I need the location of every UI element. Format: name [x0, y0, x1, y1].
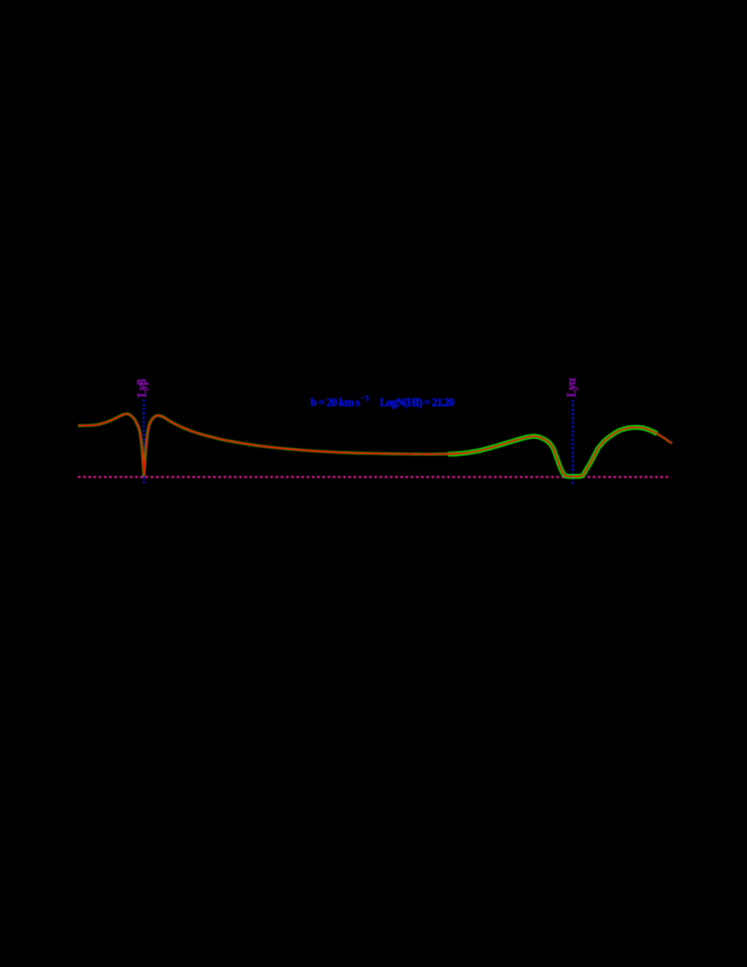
- svg-text:Lyα: Lyα: [564, 378, 578, 397]
- Ly-alpha blue dotted marker line: [572, 400, 574, 485]
- fitted red curve (right): [448, 427, 672, 476]
- svg-text:Lyβ: Lyβ: [135, 378, 149, 397]
- model spectrum green curve (tail): [653, 432, 672, 444]
- fitted red curve (left): [78, 414, 458, 476]
- model spectrum green curve (left): [78, 414, 458, 476]
- svg-text:−1: −1: [361, 394, 370, 403]
- zero-flux pink dotted line: [78, 476, 671, 478]
- svg-text:LogN(HI) = 21.20: LogN(HI) = 21.20: [380, 397, 455, 409]
- Ly-beta blue dotted marker line: [143, 400, 145, 485]
- model spectrum green curve (right, thicker envelope): [448, 427, 657, 476]
- svg-text:b = 20 km s: b = 20 km s: [311, 397, 361, 409]
